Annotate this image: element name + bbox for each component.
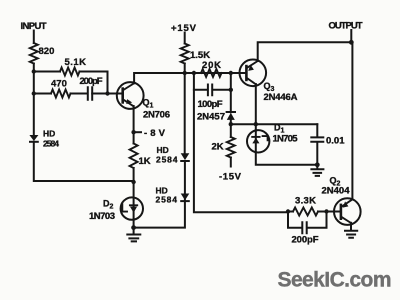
capacitor 0.01 (311, 124, 323, 165)
node output dot (349, 40, 354, 45)
transistor Q2 (334, 198, 361, 225)
diode 2N457 (227, 112, 235, 120)
svg-text:2584: 2584 (156, 155, 178, 165)
svg-text:3.3K: 3.3K (295, 196, 316, 207)
diode D1 1N705 (247, 130, 269, 152)
svg-text:HD: HD (157, 145, 169, 155)
resistor 1K (130, 144, 138, 169)
diode HD2584 lower (181, 194, 190, 202)
node rail dot 2 (192, 71, 196, 75)
svg-text:SeekIC.com: SeekIC.com (278, 268, 392, 291)
node -8V dot (131, 130, 135, 134)
diode HD2584 input (29, 135, 38, 142)
diode HD2584 upper (181, 153, 190, 161)
node ground dot right (315, 162, 320, 167)
node rail dot 1 (183, 71, 187, 75)
wire input drop (33, 31, 35, 44)
node junction dot F (254, 122, 258, 126)
svg-text:2N404: 2N404 (322, 186, 351, 197)
wire cap to base (92, 93, 116, 95)
wire diode to 2K (230, 120, 232, 137)
svg-text:2584: 2584 (43, 139, 59, 149)
ground symbol left (127, 228, 140, 242)
wire 100pF row (194, 89, 231, 91)
svg-text:20K: 20K (202, 60, 221, 71)
svg-text:D2: D2 (103, 199, 114, 211)
node junction dot E (229, 122, 233, 126)
resistor 1.5K (181, 44, 189, 64)
wire +15V drop (184, 33, 186, 44)
wire 2K to -15V (230, 158, 232, 167)
wire Q2 emitter (350, 223, 352, 231)
svg-text:-8V: -8V (144, 128, 166, 139)
svg-text:2K: 2K (212, 142, 224, 153)
svg-text:2N706: 2N706 (143, 110, 170, 121)
node rail dot 3 (229, 71, 233, 75)
svg-text:1N703: 1N703 (89, 211, 115, 222)
ground symbol middle (311, 165, 323, 176)
svg-text:0.01: 0.01 (326, 136, 345, 147)
capacitor 200pF feedback (302, 222, 306, 233)
wire output down to Q2 (351, 42, 353, 198)
svg-text:820: 820 (39, 46, 55, 57)
resistor 5.1K (60, 68, 80, 76)
resistor 3.3K (293, 208, 318, 216)
node junction dot D (131, 180, 135, 184)
ground symbol Q2 (345, 231, 357, 238)
svg-text:HD: HD (43, 129, 55, 139)
wire 470 branch (34, 93, 87, 95)
capacitor 200pF input (88, 87, 92, 100)
wire ground bus to diode column (134, 161, 185, 227)
wire output tick (350, 30, 352, 42)
node feedback dot right (324, 209, 328, 213)
wire Q1 emitter (133, 106, 135, 144)
svg-text:2N457: 2N457 (197, 112, 225, 123)
svg-text:1K: 1K (139, 156, 151, 167)
svg-text:200pF: 200pF (292, 235, 319, 246)
resistor 470 (51, 90, 71, 98)
svg-text:OUTPUT: OUTPUT (329, 21, 363, 32)
node junction dot A (32, 69, 36, 73)
wire D1 bottom bus (256, 152, 317, 164)
wire 5.1K branch top (34, 72, 108, 94)
svg-text:2584: 2584 (156, 195, 178, 205)
wire left column upper (33, 64, 35, 135)
wire rail to diode chain (184, 73, 186, 154)
svg-text:Q1: Q1 (143, 98, 154, 110)
wire Q1 collector (134, 73, 240, 83)
wire 3.3K row (288, 211, 334, 213)
svg-text:200pF: 200pF (80, 76, 103, 87)
svg-text:100pF: 100pF (198, 99, 223, 110)
resistor 820 (30, 43, 38, 64)
wire -8V tick (134, 131, 141, 133)
wire 200pF loop (288, 212, 327, 228)
svg-text:5.1K: 5.1K (65, 57, 87, 68)
wire diode to corner (34, 142, 134, 181)
wire Q3 emitter (255, 84, 257, 131)
svg-text:2N446A: 2N446A (264, 92, 298, 103)
node junction dot C (105, 91, 109, 95)
diode D2 1N703 (121, 197, 143, 219)
svg-text:-15V: -15V (219, 172, 242, 183)
wire Q3 collector to output (258, 42, 352, 61)
wire zener bus (231, 123, 317, 125)
transistor Q3 (240, 60, 267, 87)
node ground dot D2 (131, 225, 136, 230)
transistor Q1 (117, 82, 144, 109)
wire 1.5K to rail (184, 64, 186, 74)
resistor 2K (227, 137, 235, 158)
node cap dot (229, 88, 233, 92)
wire feedback vertical (194, 73, 288, 212)
resistor 20K (201, 69, 222, 77)
wire 1K to D2 (133, 168, 135, 228)
svg-text:470: 470 (51, 79, 67, 90)
svg-text:1N705: 1N705 (273, 134, 299, 145)
capacitor 100pF (208, 85, 212, 96)
node junction dot B (32, 91, 36, 95)
node feedback dot left (286, 209, 290, 213)
wire 230 column (230, 73, 232, 112)
